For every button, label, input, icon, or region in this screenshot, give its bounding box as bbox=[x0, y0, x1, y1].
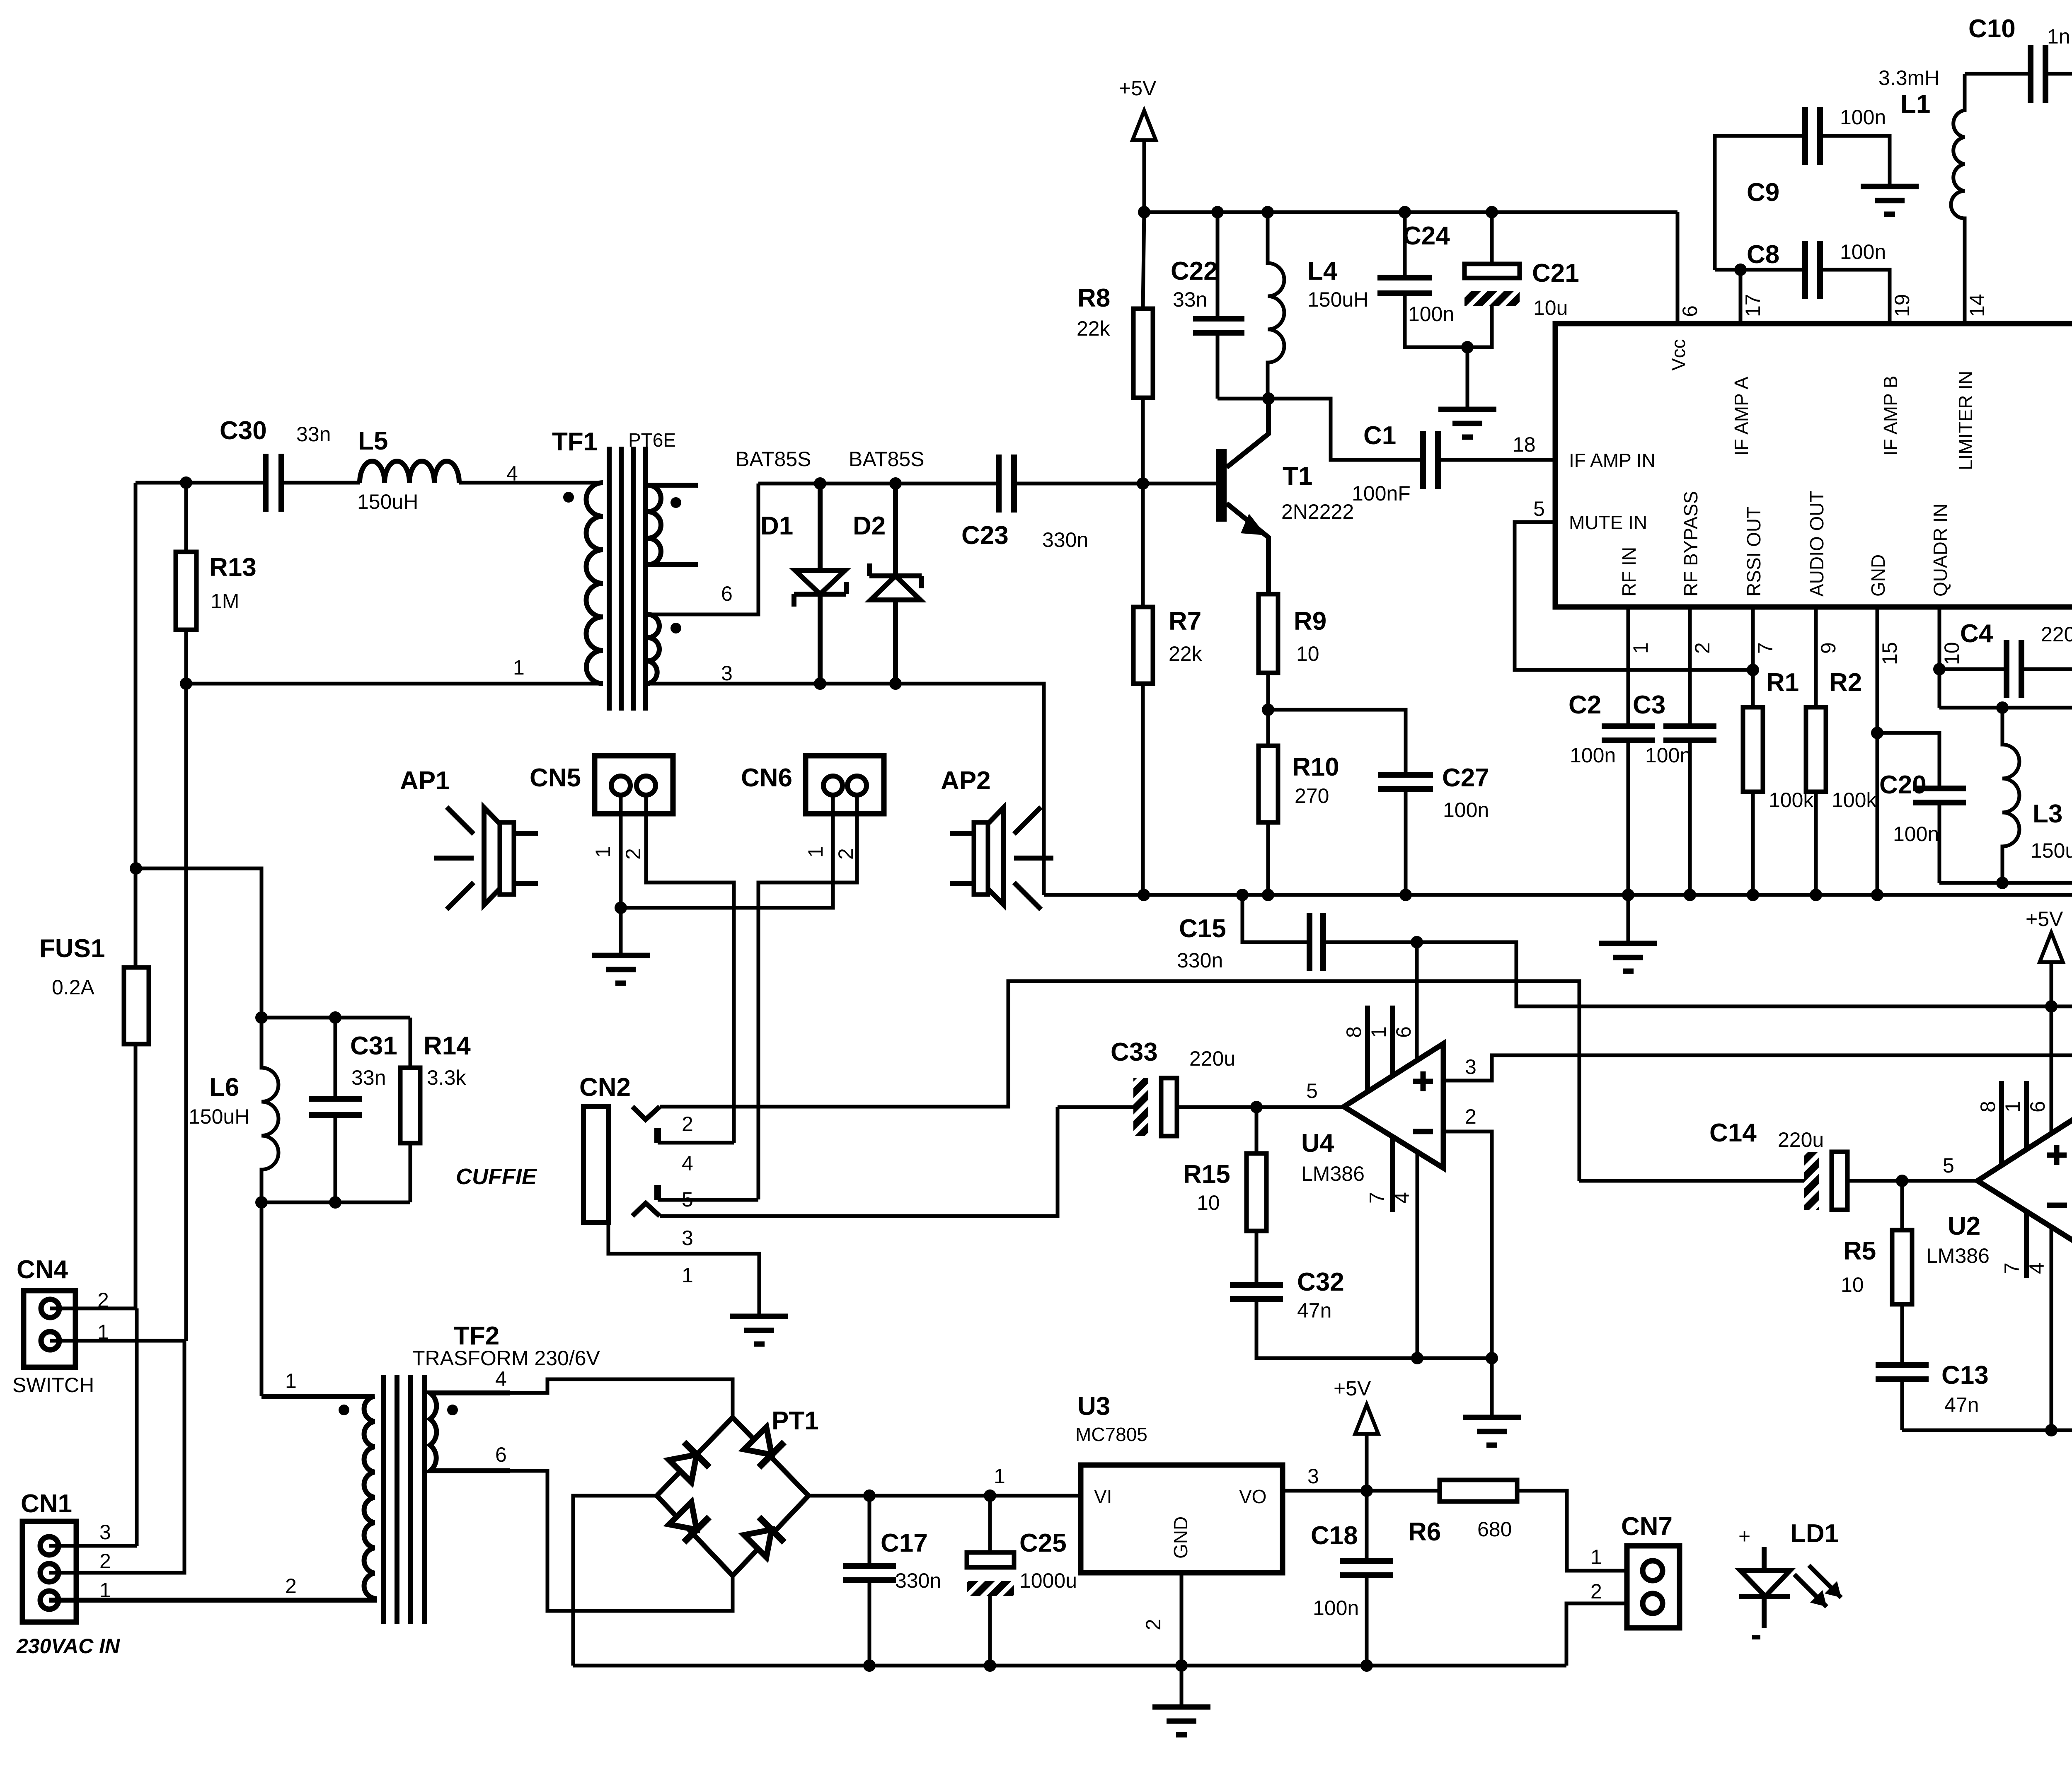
wire L6 tank top bbox=[136, 868, 410, 1018]
node D1 top bbox=[814, 477, 826, 490]
svg-text:L3: L3 bbox=[2033, 800, 2062, 828]
svg-text:C24: C24 bbox=[1403, 222, 1450, 250]
svg-text:AP1: AP1 bbox=[400, 766, 450, 795]
svg-text:C30: C30 bbox=[220, 416, 267, 445]
svg-text:C27: C27 bbox=[1442, 764, 1489, 792]
resistor R6 bbox=[1440, 1480, 1517, 1501]
inductor L4 bbox=[1268, 212, 1284, 399]
ground bus bbox=[1627, 895, 1630, 943]
svg-text:C10: C10 bbox=[1968, 15, 2016, 43]
svg-text:9: 9 bbox=[1817, 642, 1840, 654]
svg-text:C32: C32 bbox=[1297, 1268, 1344, 1296]
svg-text:1: 1 bbox=[591, 846, 615, 858]
resistor R5 bbox=[1900, 1181, 1904, 1365]
svg-text:2: 2 bbox=[1691, 642, 1714, 654]
wire U1 pin5 MUTE loop bbox=[1515, 522, 1753, 670]
svg-text:7: 7 bbox=[2000, 1262, 2024, 1274]
svg-text:150uH: 150uH bbox=[1307, 288, 1368, 311]
svg-text:C33: C33 bbox=[1111, 1038, 1158, 1066]
svg-text:TF1: TF1 bbox=[552, 428, 598, 456]
node U3 pin2 bbox=[1175, 1659, 1188, 1672]
svg-text:8: 8 bbox=[1342, 1026, 1365, 1038]
speaker AP2 bbox=[941, 766, 1053, 909]
svg-text:14: 14 bbox=[1965, 294, 1989, 317]
svg-text:PT1: PT1 bbox=[772, 1407, 819, 1435]
svg-text:CN4: CN4 bbox=[17, 1255, 68, 1284]
svg-text:AP2: AP2 bbox=[941, 766, 991, 795]
op-amp U2 LM386 bbox=[1926, 1081, 2072, 1278]
node bus C27 bbox=[1399, 889, 1412, 901]
svg-text:5: 5 bbox=[1533, 497, 1545, 520]
wire U2 pin4 bbox=[2050, 1227, 2053, 1430]
node L6 top bbox=[255, 1011, 268, 1024]
node L3 top bbox=[1996, 701, 2009, 714]
capacitor C33 polarized bbox=[1058, 1105, 1344, 1109]
node C14 R5 bbox=[1896, 1175, 1908, 1187]
svg-text:2: 2 bbox=[682, 1112, 693, 1136]
capacitor C31 bbox=[334, 1018, 337, 1202]
svg-text:BAT85S: BAT85S bbox=[736, 447, 811, 471]
svg-text:U3: U3 bbox=[1077, 1392, 1110, 1421]
wire main ground bus bbox=[1044, 893, 2072, 897]
wire CN2 pin4 bbox=[658, 1141, 734, 1145]
svg-text:2: 2 bbox=[99, 1550, 111, 1573]
ground U3 bbox=[1180, 1666, 1184, 1707]
wire CN1 pin1 to TF2 bbox=[49, 1598, 375, 1602]
node collector bbox=[1262, 392, 1275, 405]
svg-text:10: 10 bbox=[1197, 1191, 1220, 1214]
inductor L5 bbox=[360, 461, 459, 483]
node bus C2 bbox=[1622, 889, 1634, 901]
svg-text:R15: R15 bbox=[1183, 1160, 1230, 1189]
node C31 top bbox=[329, 1011, 341, 1024]
node D2 top bbox=[889, 477, 902, 490]
node R9-R10 bbox=[1262, 704, 1274, 716]
svg-text:100n: 100n bbox=[1313, 1596, 1359, 1620]
wire U1 pin14 stub bbox=[1963, 218, 1967, 324]
svg-text:17: 17 bbox=[1741, 294, 1765, 317]
node +5V rail bbox=[2045, 1000, 2057, 1013]
svg-text:2N2222: 2N2222 bbox=[1281, 500, 1354, 523]
svg-text:TF2: TF2 bbox=[454, 1322, 499, 1350]
svg-text:220u: 220u bbox=[1189, 1047, 1235, 1070]
wire U1 pin15 GND bbox=[1876, 607, 1879, 895]
node D1 bottom bbox=[814, 677, 826, 690]
node MUTE-RSSI bbox=[1747, 664, 1759, 676]
wire CN5 pin2 bbox=[646, 786, 734, 1143]
svg-text:2: 2 bbox=[1465, 1105, 1477, 1128]
svg-text:2: 2 bbox=[285, 1574, 297, 1598]
wire PT1 left vertex to ground rail bbox=[573, 1496, 657, 1666]
svg-text:22k: 22k bbox=[1077, 317, 1111, 340]
svg-text:LM386: LM386 bbox=[1301, 1162, 1365, 1185]
node U4 output R15 bbox=[1250, 1101, 1263, 1113]
ground C24/C21 bbox=[1466, 347, 1469, 409]
capacitor C27 bbox=[1378, 775, 1433, 789]
wire diode top rail bbox=[758, 482, 999, 486]
svg-text:330n: 330n bbox=[895, 1569, 941, 1592]
TF1 core bbox=[609, 447, 645, 711]
transformer TF1 bbox=[506, 428, 733, 711]
wire quadrature top rail bbox=[1939, 708, 2072, 796]
svg-text:U2: U2 bbox=[1948, 1212, 1980, 1240]
svg-text:R5: R5 bbox=[1843, 1237, 1876, 1265]
capacitor C14 polarized bbox=[1579, 1179, 1978, 1183]
svg-text:L6: L6 bbox=[209, 1073, 239, 1102]
wire U3 pin3 out bbox=[1283, 1489, 1440, 1493]
svg-text:IF AMP A: IF AMP A bbox=[1731, 377, 1752, 456]
svg-text:1: 1 bbox=[285, 1369, 297, 1393]
svg-text:CN7: CN7 bbox=[1621, 1512, 1673, 1541]
node L6 bottom bbox=[255, 1196, 268, 1209]
svg-text:C17: C17 bbox=[881, 1529, 928, 1557]
wire CN2 pin1 to ground bbox=[608, 1222, 759, 1316]
svg-text:CUFFIE: CUFFIE bbox=[456, 1164, 537, 1189]
SEC1 bbox=[1044, 77, 2072, 1060]
node bus R2 bbox=[1810, 889, 1822, 901]
svg-text:100n: 100n bbox=[1570, 744, 1616, 767]
ground C9 bbox=[1861, 186, 1919, 214]
wire C15 node down to U4 pin6 bbox=[1415, 942, 1419, 1060]
svg-text:6: 6 bbox=[1678, 305, 1702, 317]
svg-text:4: 4 bbox=[506, 462, 518, 485]
svg-text:3.3k: 3.3k bbox=[427, 1066, 467, 1089]
svg-text:C15: C15 bbox=[1179, 914, 1226, 943]
svg-text:47n: 47n bbox=[1297, 1299, 1331, 1322]
svg-text:47n: 47n bbox=[1944, 1393, 1979, 1417]
capacitor C17 bbox=[868, 1496, 871, 1666]
svg-text:U4: U4 bbox=[1301, 1129, 1334, 1158]
SEC2 bbox=[1513, 15, 2072, 991]
node pin17 C8 bbox=[1734, 264, 1747, 276]
op-amp U4 LM386 bbox=[1301, 1006, 1477, 1212]
svg-text:33n: 33n bbox=[351, 1066, 386, 1089]
svg-text:L5: L5 bbox=[358, 427, 388, 455]
wire CN4 pin1 bbox=[50, 1339, 186, 1343]
capacitor C10 bbox=[1965, 72, 2072, 76]
node bus R1 bbox=[1747, 889, 1759, 901]
svg-text:1: 1 bbox=[1590, 1545, 1602, 1569]
svg-text:6: 6 bbox=[2026, 1101, 2049, 1112]
svg-text:150uH: 150uH bbox=[2031, 839, 2072, 862]
svg-text:BAT85S: BAT85S bbox=[849, 447, 925, 471]
svg-text:VO: VO bbox=[1239, 1486, 1266, 1507]
node bus R10 bbox=[1262, 889, 1274, 901]
svg-text:+5V: +5V bbox=[2026, 907, 2063, 931]
svg-text:3: 3 bbox=[682, 1226, 693, 1250]
svg-text:7: 7 bbox=[1365, 1192, 1389, 1204]
node R13 bottom bbox=[180, 677, 192, 690]
svg-text:330n: 330n bbox=[1042, 528, 1088, 551]
node pin10 C4 bbox=[1933, 663, 1946, 675]
svg-text:15: 15 bbox=[1878, 642, 1901, 665]
svg-text:100n: 100n bbox=[1840, 240, 1886, 264]
svg-text:R7: R7 bbox=[1169, 607, 1201, 636]
wire U4 pin2 feedback bbox=[1443, 1132, 1492, 1358]
capacitor C13 bbox=[1876, 1365, 1929, 1379]
svg-text:C2: C2 bbox=[1569, 691, 1601, 719]
svg-text:C18: C18 bbox=[1311, 1521, 1358, 1550]
svg-text:MC7805: MC7805 bbox=[1075, 1424, 1147, 1445]
svg-text:6: 6 bbox=[1392, 1026, 1415, 1038]
TF1 secondary bottom winding bbox=[648, 614, 659, 684]
svg-text:C21: C21 bbox=[1532, 259, 1579, 288]
svg-text:R1: R1 bbox=[1766, 668, 1799, 697]
TF1 phase dots bbox=[563, 492, 574, 503]
CN6 pin circles bbox=[823, 776, 842, 795]
node C15 right bbox=[1411, 936, 1423, 948]
svg-text:C31: C31 bbox=[350, 1032, 397, 1060]
svg-text:6: 6 bbox=[495, 1443, 507, 1466]
wire R13 top lead bbox=[184, 483, 188, 552]
svg-text:LIMITER IN: LIMITER IN bbox=[1955, 371, 1976, 470]
TF2 secondary winding bbox=[430, 1393, 510, 1471]
node rail R8 bbox=[1138, 206, 1150, 218]
svg-text:GND: GND bbox=[1867, 554, 1889, 597]
svg-text:C9: C9 bbox=[1747, 178, 1779, 207]
capacitor C21 polarized bbox=[1467, 212, 1492, 347]
svg-text:5: 5 bbox=[1306, 1079, 1318, 1103]
node rail C21 bbox=[1486, 206, 1498, 218]
svg-text:150uH: 150uH bbox=[189, 1105, 249, 1128]
svg-text:FUS1: FUS1 bbox=[39, 934, 105, 963]
svg-text:19: 19 bbox=[1890, 294, 1914, 317]
capacitor C20 bbox=[1877, 733, 1939, 883]
svg-text:AUDIO OUT: AUDIO OUT bbox=[1806, 491, 1828, 597]
wire CN2 pin5 bbox=[658, 1198, 758, 1202]
resistor R10 bbox=[1266, 710, 1270, 895]
svg-text:3: 3 bbox=[1307, 1465, 1319, 1488]
inductor L1 bbox=[1951, 74, 1965, 324]
svg-text:100n: 100n bbox=[1408, 302, 1454, 326]
wire TF2 pin4 to bridge bbox=[510, 1379, 733, 1417]
svg-text:C25: C25 bbox=[1019, 1529, 1067, 1557]
connector CN6 bbox=[741, 756, 884, 860]
svg-text:1: 1 bbox=[1629, 642, 1652, 654]
capacitor C25 polarized bbox=[988, 1496, 992, 1666]
resistor R13 bbox=[176, 552, 196, 630]
svg-text:Vcc: Vcc bbox=[1668, 339, 1689, 371]
svg-text:R9: R9 bbox=[1294, 607, 1326, 636]
svg-text:7: 7 bbox=[1754, 642, 1777, 654]
wire CN2 pin2 to C14 riser bbox=[660, 981, 1579, 1181]
svg-text:150uH: 150uH bbox=[357, 490, 418, 513]
resistor R1 bbox=[1751, 607, 1755, 895]
inductor L3 bbox=[2002, 708, 2019, 883]
connector CN2 headphone jack bbox=[456, 1073, 693, 1287]
capacitor C4 bbox=[1939, 667, 2072, 671]
wire TF2 pin6 to bridge bbox=[510, 1471, 733, 1611]
svg-text:MUTE IN: MUTE IN bbox=[1569, 512, 1647, 533]
svg-text:R2: R2 bbox=[1829, 668, 1862, 697]
wire CN6 pin1 bbox=[621, 786, 833, 908]
resistor R7 bbox=[1141, 484, 1145, 895]
node CN5 pin1 gnd bbox=[615, 902, 627, 914]
capacitor C9 bbox=[1715, 136, 1890, 270]
svg-text:4: 4 bbox=[682, 1152, 693, 1175]
resistor R8 bbox=[1143, 212, 1144, 484]
wire U3 pin2 to ground bbox=[1180, 1573, 1184, 1666]
capacitor C32 bbox=[1230, 1285, 1283, 1299]
wire CN1 pin2 riser bbox=[49, 1341, 184, 1573]
wire C23 to base bbox=[1014, 482, 1221, 486]
capacitor C15 bbox=[1242, 895, 1417, 942]
node U4 rail pin4 bbox=[1411, 1352, 1423, 1364]
svg-text:4: 4 bbox=[495, 1367, 507, 1390]
svg-text:+5V: +5V bbox=[1334, 1377, 1371, 1400]
svg-text:R10: R10 bbox=[1292, 753, 1339, 781]
capacitor C3 bbox=[1688, 607, 1692, 895]
wire U1 pin6 Vcc stub bbox=[1676, 212, 1680, 324]
node bus R7 bbox=[1138, 889, 1150, 901]
wire U2 ground rail bbox=[1902, 1191, 2072, 1430]
wire +5V rail bbox=[1144, 210, 1677, 214]
svg-text:22k: 22k bbox=[1169, 642, 1203, 665]
node C25 top bbox=[984, 1489, 996, 1502]
inductor L6 bbox=[261, 1018, 278, 1202]
transformer TF2 bbox=[49, 1322, 600, 1624]
svg-text:230VAC IN: 230VAC IN bbox=[16, 1634, 120, 1658]
svg-text:RSSI OUT: RSSI OUT bbox=[1743, 507, 1765, 597]
svg-text:C20: C20 bbox=[1879, 771, 1927, 799]
wire U4 pin4 bbox=[1416, 1151, 1419, 1358]
svg-text:100n: 100n bbox=[1645, 744, 1691, 767]
TF2 phase dots bbox=[339, 1405, 349, 1415]
svg-text:100n: 100n bbox=[1840, 106, 1886, 129]
svg-text:1: 1 bbox=[682, 1264, 693, 1287]
fuse FUS1 bbox=[39, 934, 149, 1044]
svg-text:10: 10 bbox=[1296, 642, 1319, 665]
svg-text:0.2A: 0.2A bbox=[52, 976, 95, 999]
svg-text:3.3mH: 3.3mH bbox=[1878, 66, 1939, 89]
svg-text:1: 1 bbox=[2001, 1101, 2024, 1112]
svg-text:1n: 1n bbox=[2047, 25, 2070, 48]
svg-text:C3: C3 bbox=[1633, 691, 1665, 719]
node bus pin15 bbox=[1871, 889, 1883, 901]
svg-text:D2: D2 bbox=[853, 512, 886, 540]
node rail C22 bbox=[1211, 206, 1224, 218]
TF2 core bbox=[383, 1375, 424, 1624]
diode D2 BAT85S zener bbox=[849, 447, 925, 684]
svg-text:18: 18 bbox=[1513, 433, 1536, 456]
svg-text:C1: C1 bbox=[1363, 421, 1396, 450]
svg-text:RF BYPASS: RF BYPASS bbox=[1680, 491, 1702, 597]
svg-text:4: 4 bbox=[2025, 1262, 2048, 1274]
ground CN5 bbox=[619, 908, 623, 955]
wire C22 bottom to collector node bbox=[1218, 397, 1268, 401]
svg-text:SWITCH: SWITCH bbox=[12, 1373, 94, 1397]
svg-text:33n: 33n bbox=[296, 423, 331, 446]
svg-text:1: 1 bbox=[513, 656, 525, 679]
capacitor C30 bbox=[266, 454, 281, 512]
capacitor C19 bbox=[2051, 1006, 2072, 1055]
wire CN2 pin3 to C33 bbox=[660, 1107, 1058, 1216]
node rail C24 bbox=[1399, 206, 1411, 218]
svg-text:1: 1 bbox=[1367, 1026, 1390, 1038]
svg-text:RF IN: RF IN bbox=[1618, 547, 1640, 597]
wire R6 to CN7 pin1 bbox=[1517, 1491, 1629, 1571]
svg-text:2: 2 bbox=[622, 848, 645, 860]
svg-text:8: 8 bbox=[1976, 1101, 1999, 1112]
svg-text:CN2: CN2 bbox=[579, 1073, 631, 1102]
wire power ground rail bbox=[573, 1664, 1566, 1668]
node U4 rail pin2 bbox=[1486, 1352, 1498, 1364]
svg-text:C13: C13 bbox=[1941, 1361, 1989, 1390]
capacitor C8 bbox=[1715, 270, 1890, 324]
svg-text:5: 5 bbox=[1943, 1154, 1954, 1177]
svg-text:R6: R6 bbox=[1408, 1518, 1441, 1546]
svg-text:100nF: 100nF bbox=[1352, 482, 1411, 505]
node rail pin4 bbox=[2045, 1424, 2057, 1436]
svg-text:1000u: 1000u bbox=[1019, 1569, 1077, 1592]
svg-text:1: 1 bbox=[994, 1465, 1005, 1488]
svg-text:1: 1 bbox=[804, 846, 827, 858]
resistor R9 bbox=[1268, 594, 1268, 710]
svg-text:C8: C8 bbox=[1747, 240, 1779, 269]
svg-text:3: 3 bbox=[721, 662, 733, 685]
svg-text:680: 680 bbox=[1477, 1518, 1512, 1541]
svg-text:CN5: CN5 bbox=[530, 764, 581, 792]
svg-text:330n: 330n bbox=[1177, 949, 1223, 972]
op-amp U1 SA615D-SMT box bbox=[1513, 269, 2072, 665]
svg-text:LM386: LM386 bbox=[1926, 1244, 1990, 1267]
svg-text:2: 2 bbox=[1142, 1619, 1165, 1630]
resistor R14 bbox=[409, 1018, 412, 1202]
svg-text:270: 270 bbox=[1295, 784, 1329, 808]
svg-text:CN6: CN6 bbox=[741, 764, 792, 792]
wire CN4 pin2 bbox=[50, 1307, 136, 1310]
node bus C15 bbox=[1236, 889, 1249, 901]
capacitor C22 bbox=[1216, 212, 1220, 399]
svg-text:33n: 33n bbox=[1173, 288, 1207, 311]
node C18 bottom bbox=[1360, 1659, 1373, 1672]
svg-text:QUADR IN: QUADR IN bbox=[1929, 503, 1951, 597]
resistor R15 bbox=[1255, 1107, 1259, 1285]
svg-text:C4: C4 bbox=[1960, 619, 1993, 648]
wire collector to C1 bbox=[1268, 399, 1423, 460]
node D2 bottom bbox=[889, 677, 902, 690]
node +5V C18 bbox=[1360, 1485, 1373, 1497]
svg-text:GND: GND bbox=[1170, 1516, 1191, 1559]
wire C1 to U1 pin18 bbox=[1438, 458, 1555, 462]
wire CN5 pin1 bbox=[619, 786, 623, 908]
connector CN5 bbox=[530, 756, 673, 860]
node base-rail junction bbox=[180, 476, 192, 489]
svg-text:TRASFORM 230/6V: TRASFORM 230/6V bbox=[412, 1347, 600, 1370]
wire R9 bottom to C27 bbox=[1268, 710, 1406, 775]
svg-text:C23: C23 bbox=[961, 521, 1009, 550]
node L3 bottom bbox=[1996, 877, 2009, 889]
wire L6 tank bottom bbox=[261, 1202, 410, 1396]
wire R13 bottom to TF1 pin1 and CN4 bbox=[186, 630, 603, 1341]
wire TF1 pin3 bottom rail bbox=[648, 684, 1044, 895]
SEC3 bbox=[400, 756, 2072, 1519]
wire antenna input top rail bbox=[136, 481, 603, 485]
node base junction bbox=[1137, 477, 1149, 490]
svg-text:10: 10 bbox=[1841, 1273, 1864, 1296]
svg-text:3: 3 bbox=[99, 1521, 111, 1544]
node C25 bottom bbox=[984, 1659, 996, 1672]
node C17 bottom bbox=[863, 1659, 876, 1672]
node fuse line L6 branch bbox=[130, 862, 142, 875]
wire U1 pin17 stub bbox=[1739, 270, 1743, 324]
svg-text:+5V: +5V bbox=[1119, 77, 1157, 100]
svg-text:L1: L1 bbox=[1900, 90, 1930, 118]
node C17 top bbox=[863, 1489, 876, 1502]
regulator U3 MC7805 bbox=[994, 1392, 1319, 1630]
connector CN4 bbox=[12, 1255, 109, 1397]
svg-text:VI: VI bbox=[1094, 1486, 1112, 1507]
